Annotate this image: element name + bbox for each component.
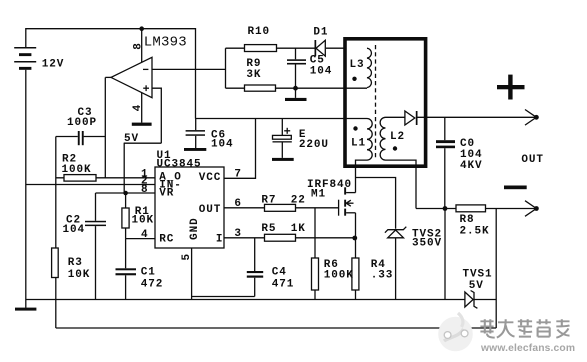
- node L2 polarity dot: [393, 146, 397, 150]
- svg-text:104: 104: [310, 66, 333, 78]
- svg-text:10K: 10K: [68, 269, 91, 281]
- svg-text:10K: 10K: [132, 215, 155, 227]
- capacitor C6: [186, 119, 205, 149]
- svg-text:www.elecfans.com: www.elecfans.com: [480, 343, 575, 354]
- transistor Q M1 IRF840: [339, 187, 356, 238]
- wire op-amp minus input: [152, 68, 226, 70]
- svg-text:UC3845: UC3845: [157, 159, 202, 171]
- capacitor C3: [56, 131, 106, 145]
- node junction C5/R9: [293, 86, 298, 91]
- resistor R10: [245, 45, 277, 52]
- svg-text:350V: 350V: [412, 238, 442, 250]
- ground (op-amp pin4): [132, 123, 152, 126]
- wire battery negative lead: [25, 70, 27, 300]
- wire R9 bottom line to L3: [226, 87, 368, 89]
- node VR junction: [123, 191, 128, 196]
- svg-text:GND: GND: [189, 217, 201, 240]
- svg-text:5V: 5V: [124, 133, 139, 145]
- resistor R8: [456, 205, 486, 212]
- resistor R6: [312, 208, 319, 300]
- wire op-amp pin4: [141, 93, 143, 123]
- resistor R2: [64, 175, 96, 182]
- wire L1 bottom to drain: [356, 160, 368, 193]
- minus terminal symbol: [504, 186, 527, 190]
- svg-text:L2: L2: [390, 131, 405, 143]
- svg-text:R10: R10: [248, 26, 271, 38]
- wire op-amp pin8 VCC: [141, 29, 143, 63]
- node junction top rail: [139, 26, 144, 31]
- resistor R3: [52, 248, 59, 328]
- wire ground rail1: [26, 299, 465, 301]
- svg-text:I: I: [216, 233, 224, 245]
- resistor R7: [265, 204, 296, 211]
- wire R10 top line: [226, 47, 345, 49]
- wire gnd link pin5 to C4: [192, 296, 255, 298]
- wire pin2 IN- line: [26, 184, 155, 186]
- wire L2 bottom to out minus rail: [386, 160, 417, 208]
- svg-text:4: 4: [141, 229, 149, 241]
- wire pin8 VR line: [96, 192, 156, 194]
- svg-text:1K: 1K: [291, 223, 306, 235]
- svg-text:100P: 100P: [67, 117, 97, 129]
- wire OUT+ line: [418, 116, 537, 118]
- node L1 polarity dot: [353, 126, 357, 130]
- inductor L2 winding: [380, 117, 385, 160]
- svg-text:R8: R8: [460, 214, 475, 226]
- resistor R4: [352, 238, 359, 300]
- node junction source/R5: [352, 236, 357, 241]
- watermark chinese characters: [480, 319, 569, 337]
- svg-text:L1: L1: [351, 137, 366, 149]
- svg-text:RC: RC: [159, 233, 174, 245]
- ground (C6): [184, 148, 206, 151]
- svg-text:4: 4: [132, 104, 144, 112]
- svg-text:4KV: 4KV: [460, 160, 483, 172]
- svg-text:R7: R7: [261, 195, 276, 207]
- diode TVS2: [385, 227, 406, 300]
- svg-text:8: 8: [132, 42, 144, 50]
- wire C3 left / R2 left vertical: [55, 137, 57, 249]
- resistor R1: [122, 193, 129, 239]
- svg-text:L3: L3: [350, 59, 365, 71]
- wire ground rail2: [56, 327, 496, 329]
- wire pin5 GND: [191, 248, 193, 300]
- svg-text:12V: 12V: [42, 58, 65, 70]
- plus terminal symbol: [497, 75, 525, 100]
- svg-text:104: 104: [63, 224, 86, 236]
- capacitor C5: [287, 48, 306, 88]
- svg-text:472: 472: [141, 278, 164, 290]
- svg-text:100K: 100K: [324, 269, 354, 281]
- resistor R5: [265, 234, 296, 241]
- op-amp U LM393: [111, 57, 152, 97]
- inductor L3 winding: [367, 48, 371, 87]
- node 5V: [124, 142, 162, 144]
- wire op-amp plus input to 5V: [152, 88, 161, 143]
- wire R10/R9 left vertical: [225, 48, 227, 88]
- resistor R9: [245, 85, 276, 91]
- watermark logo elecfans: [438, 313, 473, 351]
- svg-text:2.5K: 2.5K: [460, 226, 490, 238]
- wire R8 node down to TVS1/rail2: [495, 209, 497, 329]
- svg-text:100K: 100K: [62, 164, 92, 176]
- ground (E): [272, 158, 294, 161]
- svg-text:7: 7: [234, 169, 242, 181]
- capacitor E 220U electrolytic: [273, 119, 292, 158]
- wire pin4 RC line: [126, 238, 155, 240]
- wire 5V to VR pin8: [123, 143, 125, 193]
- OUT+ arrow: [525, 110, 536, 126]
- wire L2 top to output diode: [386, 116, 405, 118]
- svg-text:LM393: LM393: [144, 35, 187, 51]
- transformer core dashed line: [375, 45, 377, 158]
- svg-text:M1: M1: [311, 189, 326, 201]
- svg-text:R5: R5: [261, 223, 276, 235]
- svg-text:5: 5: [181, 253, 193, 261]
- wire pin1 A_O line: [56, 177, 155, 179]
- svg-text:VR: VR: [159, 188, 174, 200]
- svg-text:C4: C4: [272, 267, 287, 279]
- svg-text:OUT: OUT: [521, 154, 544, 166]
- svg-text:6: 6: [234, 198, 242, 210]
- svg-text:.33: .33: [371, 269, 394, 281]
- diode TVS1: [465, 291, 496, 309]
- svg-text:3: 3: [234, 228, 242, 240]
- capacitor C1: [116, 239, 137, 300]
- svg-text:220U: 220U: [299, 139, 329, 151]
- ground (battery): [15, 300, 36, 311]
- svg-text:OUT: OUT: [199, 204, 222, 216]
- svg-text:471: 471: [272, 279, 295, 291]
- svg-text:R3: R3: [68, 257, 83, 269]
- node L3 polarity dot: [352, 77, 356, 81]
- svg-text:22: 22: [291, 195, 306, 207]
- diode output rectifier: [405, 111, 418, 125]
- wire pin3 I line to source: [224, 237, 355, 239]
- transformer core box: [345, 39, 426, 166]
- svg-text:C1: C1: [141, 266, 156, 278]
- OUT- arrow: [525, 201, 536, 217]
- ground (C5): [285, 88, 307, 101]
- wire pin6 OUT to gate via R7: [224, 207, 339, 209]
- capacitor C0: [436, 117, 455, 208]
- capacitor C4: [247, 238, 263, 297]
- svg-text:8: 8: [141, 184, 149, 196]
- wire pin7 VCC: [224, 119, 256, 179]
- node junction C0 / out minus: [443, 206, 448, 211]
- svg-text:5V: 5V: [469, 280, 484, 292]
- diode D1: [315, 40, 326, 56]
- wire drain to TVS2: [356, 178, 396, 229]
- svg-text:3K: 3K: [246, 69, 261, 81]
- capacitor C2: [85, 193, 106, 300]
- inductor L1 winding: [367, 119, 372, 161]
- svg-text:TVS1: TVS1: [463, 268, 493, 280]
- wire VCC rail to L1: [196, 118, 368, 120]
- wire top rail 12V: [26, 29, 196, 119]
- svg-text:104: 104: [211, 139, 234, 151]
- wire op-amp output down to pin1 line: [105, 77, 111, 177]
- wire C0 node down to rail1: [444, 209, 446, 300]
- svg-text:VCC: VCC: [199, 172, 222, 184]
- wire out minus rail: [416, 208, 536, 210]
- battery 12V: [14, 47, 36, 70]
- IC U1 UC3845 box: [155, 167, 224, 248]
- svg-text:D1: D1: [313, 26, 328, 38]
